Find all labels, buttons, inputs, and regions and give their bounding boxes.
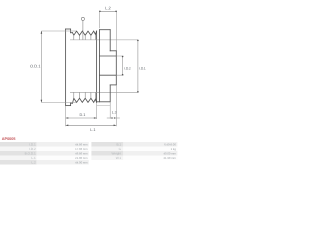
L.2 end dots [99,11,101,13]
svg-text:AP0005: AP0005 [2,137,16,141]
svg-text:W.1: W.1 [116,156,122,160]
svg-text:D.1: D.1 [79,113,85,117]
O.D.1 top extension line [41,30,76,32]
O.D.1 bottom extension line [41,101,76,103]
svg-text:L.1: L.1 [90,128,95,132]
I.D.2 extension lines [116,56,123,75]
bore top line [100,55,117,57]
svg-text:44.00 mm: 44.00 mm [75,160,88,164]
L.1 arrows [66,125,117,127]
D.1 extension left [65,106,67,127]
svg-text:I.D.2: I.D.2 [29,147,36,151]
svg-text:40.00 mm: 40.00 mm [163,151,176,155]
svg-text:1 kg: 1 kg [171,147,177,151]
L.2 extension right [115,11,117,50]
side view right edge [96,31,98,102]
rib root line bottom (extends to I.D.1 dimension) [70,91,139,93]
datum marker leader [82,21,84,40]
svg-text:L.2: L.2 [31,160,36,164]
hub ledge bottom [110,84,116,86]
svg-text:46.86 mm: 46.86 mm [75,151,88,155]
L.3 arrows [110,117,116,119]
O.D.1 dimension line [40,31,42,102]
svg-text:L.3: L.3 [112,111,117,115]
bore bottom line [100,74,117,76]
D.1 dimension line [66,117,97,119]
section bottom edge [97,101,111,103]
flange bottom edge [66,105,71,107]
D.1 extension right [96,102,98,119]
svg-text:17.06 mm: 17.06 mm [75,147,88,151]
svg-text:B.1: B.1 [116,142,121,146]
bottom rib zigzag [73,98,97,103]
hub ledge top [110,50,116,52]
svg-text:6.40-8.00: 6.40-8.00 [164,142,176,146]
L.3 extension right [115,85,117,126]
rib separator ticks bottom [74,92,96,99]
hub right face [115,51,117,85]
L.3 dimension tails [107,117,120,119]
section view outline [97,30,117,102]
L.3 extension left [109,102,111,119]
I.D.2 dimension line [122,56,124,75]
I.D.1 dimension line [137,40,139,92]
svg-text:44.86 mm: 44.86 mm [75,142,88,146]
svg-text:L.1: L.1 [31,156,36,160]
svg-text:I.D.1: I.D.1 [29,142,36,146]
pulley side view: outline [66,29,97,106]
rib separator ticks top [74,34,96,99]
ledges [71,33,73,104]
section step verticals [109,30,111,102]
top rib zigzag [73,31,97,35]
L.1 dimension line [66,124,117,126]
svg-text:21.90 mm: 21.90 mm [163,156,176,160]
auxiliary bottom line [97,104,111,106]
flange top edge [66,28,71,30]
section top edge [100,29,111,31]
svg-text:I.D.1: I.D.1 [139,66,146,70]
flange inner verticals [70,29,72,106]
svg-text:Weight: Weight [112,151,122,155]
data table right [91,142,177,160]
datum marker circle [81,17,84,20]
section left face [99,30,101,102]
L.2 extension left [99,11,101,28]
D.1 arrows [66,117,97,119]
svg-text:L.2: L.2 [105,5,111,10]
data table left [0,142,89,165]
I.D.1 end dots [137,40,139,42]
svg-text:O.D.1: O.D.1 [30,63,41,68]
svg-text:B.O.D.1: B.O.D.1 [25,151,36,155]
O.D.1 arrows [41,31,43,102]
svg-text:21.00 mm: 21.00 mm [75,156,88,160]
I.D.2 end dots [122,56,124,58]
left flange face [65,29,67,106]
svg-text:I.D.2: I.D.2 [124,66,131,70]
rib root line top (extends to I.D.1 dimension) [70,39,138,41]
L.2 dimension line [100,10,117,12]
